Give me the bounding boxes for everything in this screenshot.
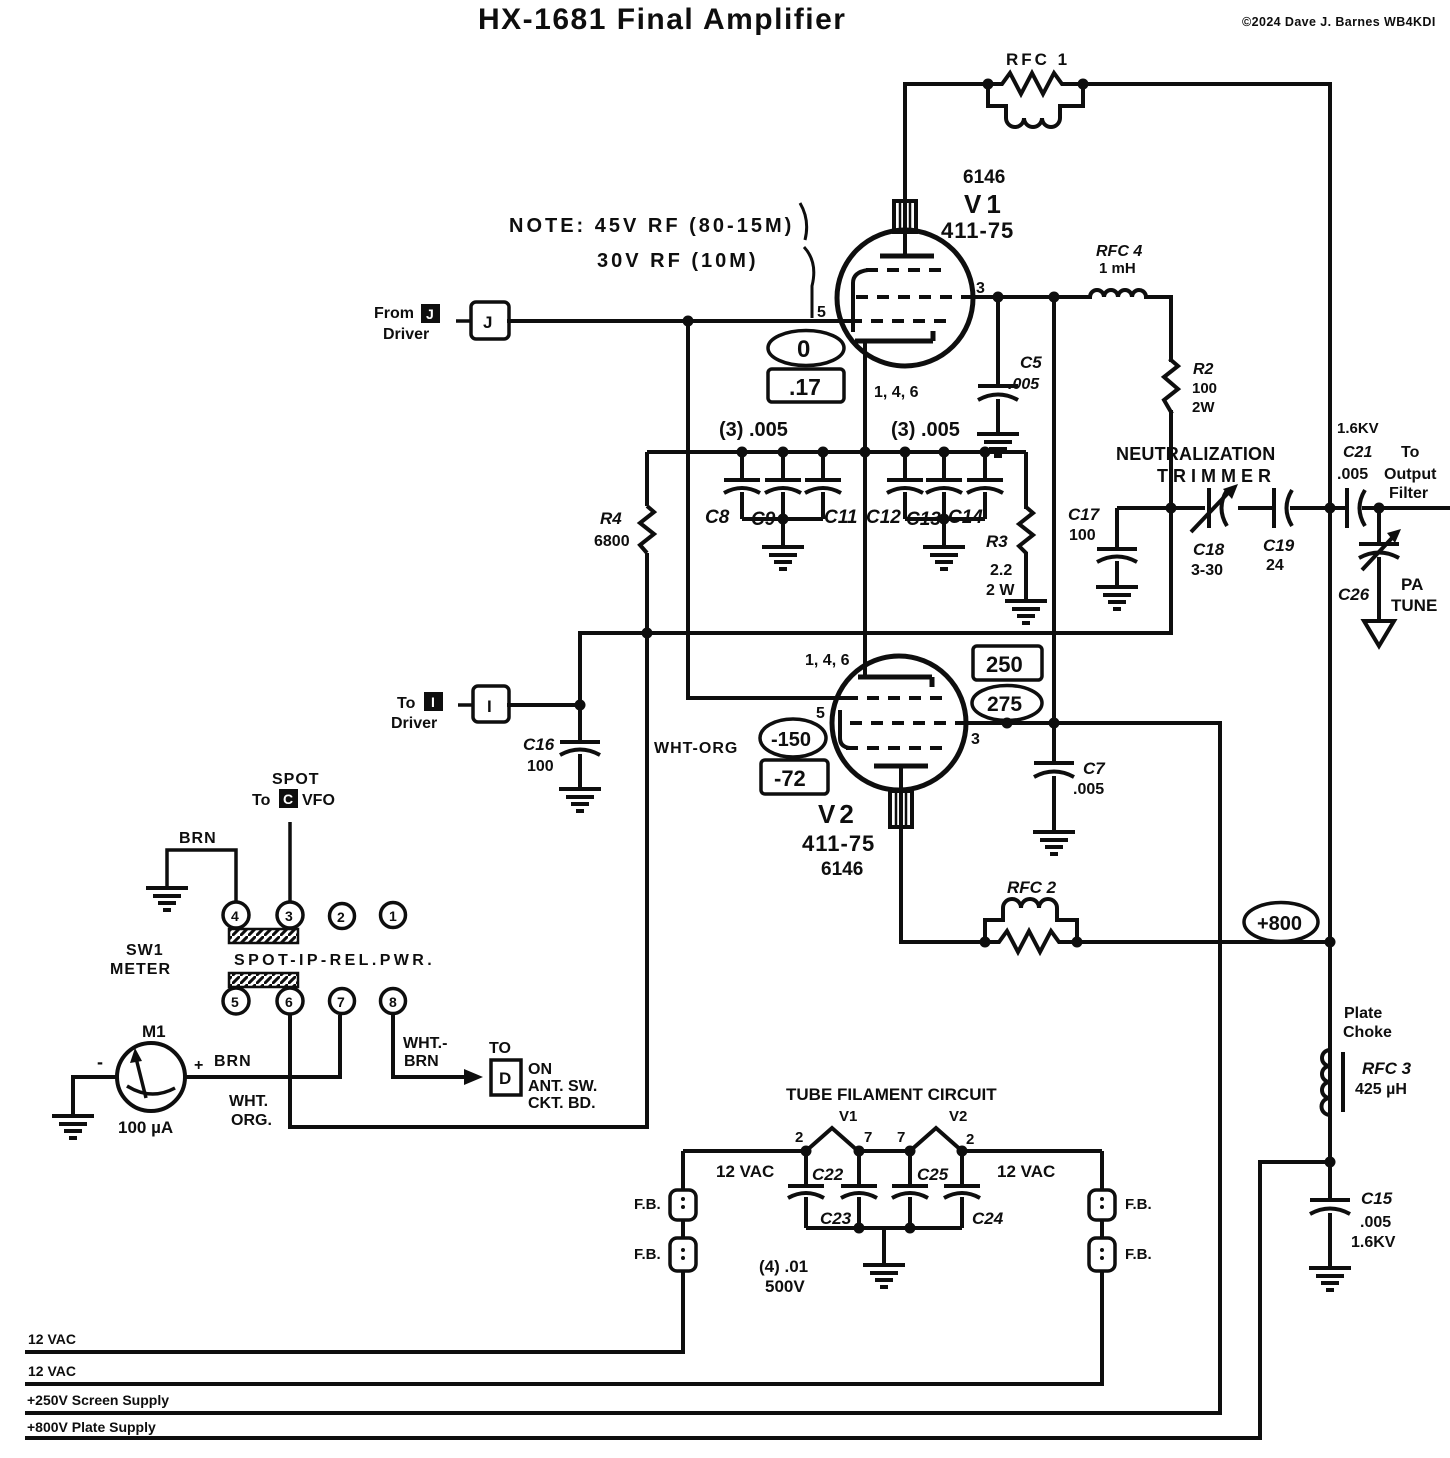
svg-text:F.B.: F.B. — [634, 1246, 661, 1263]
ferrite bead FB left 1 — [670, 1190, 696, 1220]
wire BRN to contact 4 — [167, 850, 236, 902]
svg-text:R4: R4 — [600, 509, 622, 528]
svg-text:C9: C9 — [751, 509, 776, 530]
svg-text:To: To — [397, 695, 416, 712]
svg-text:V2: V2 — [818, 799, 858, 829]
wire contact 8 WHT-BRN arrow — [393, 1015, 466, 1077]
svg-text:.005: .005 — [1337, 466, 1368, 483]
svg-text:SW1: SW1 — [126, 942, 164, 959]
svg-text:Output: Output — [1384, 466, 1437, 483]
node choke bottom junction — [1325, 1157, 1336, 1168]
svg-text:100: 100 — [1069, 527, 1096, 544]
svg-text:.005: .005 — [1360, 1214, 1391, 1231]
wire filament feed right — [962, 1149, 1102, 1153]
svg-text:(4) .01: (4) .01 — [759, 1257, 808, 1276]
svg-text:C17: C17 — [1068, 505, 1101, 524]
svg-text:TO: TO — [489, 1040, 511, 1057]
svg-text:2.2: 2.2 — [990, 562, 1012, 579]
capacitor C19 — [1274, 488, 1292, 528]
svg-text:RFC 2: RFC 2 — [1007, 878, 1057, 897]
switch SW1 wiper upper — [229, 929, 298, 943]
svg-text:C5: C5 — [1020, 353, 1042, 372]
wire V2 plate lead — [901, 827, 985, 942]
svg-text:1.6KV: 1.6KV — [1351, 1234, 1396, 1251]
wire RFC2 to +800 rail — [1077, 940, 1330, 944]
wire grid drive V1 — [509, 319, 850, 323]
svg-text:+: + — [194, 1057, 203, 1074]
ground C17 — [1096, 587, 1138, 609]
wire left cap group bar — [742, 519, 823, 545]
svg-text:V1: V1 — [964, 189, 1006, 219]
svg-text:1: 1 — [389, 908, 397, 924]
svg-text:-72: -72 — [774, 766, 806, 791]
svg-text:2: 2 — [795, 1129, 803, 1146]
svg-text:BRN: BRN — [179, 830, 217, 847]
svg-text:NEUTRALIZATION: NEUTRALIZATION — [1116, 444, 1275, 464]
svg-text:PA: PA — [1401, 575, 1423, 594]
ferrite bead FB left 2 — [670, 1238, 696, 1271]
svg-text:411-75: 411-75 — [802, 831, 875, 856]
svg-text:3: 3 — [285, 908, 293, 924]
svg-text:4: 4 — [231, 908, 239, 924]
svg-text:6146: 6146 — [963, 167, 1005, 188]
svg-text:F.B.: F.B. — [1125, 1196, 1152, 1213]
svg-text:5: 5 — [817, 304, 826, 321]
node HV rail junction — [1325, 503, 1336, 514]
trimmer capacitor C18 — [1191, 488, 1228, 532]
ground BRN — [146, 888, 188, 910]
svg-text:Driver: Driver — [383, 326, 429, 343]
filament nodes — [801, 1146, 968, 1234]
svg-text:Choke: Choke — [1343, 1024, 1392, 1041]
choke RFC1 parasitic suppressor — [983, 73, 1089, 127]
svg-text:C21: C21 — [1343, 444, 1372, 461]
svg-text:100 µA: 100 µA — [118, 1118, 173, 1137]
capacitor C9 — [765, 452, 801, 519]
svg-text:(3) .005: (3) .005 — [891, 419, 960, 441]
svg-text:2: 2 — [966, 1131, 974, 1148]
svg-text:C15: C15 — [1361, 1189, 1393, 1208]
switch SW1 contact 7 — [330, 989, 355, 1014]
inductor RFC4 — [1090, 290, 1146, 297]
capacitor C13 — [926, 452, 962, 519]
svg-text:ON: ON — [528, 1061, 552, 1078]
capacitor C8 — [724, 452, 760, 519]
wire R4 branch top — [645, 452, 649, 506]
wire filament cap bar — [806, 1228, 962, 1263]
svg-text:275: 275 — [987, 693, 1022, 716]
svg-text:12 VAC: 12 VAC — [28, 1331, 76, 1347]
svg-text:WHT-ORG: WHT-ORG — [654, 740, 738, 757]
wire SPOT to contact 3 — [288, 822, 292, 902]
svg-text:+250V Screen Supply: +250V Screen Supply — [27, 1392, 169, 1408]
svg-text:WHT.: WHT. — [229, 1093, 268, 1110]
svg-text:C26: C26 — [1338, 585, 1370, 604]
svg-text:24: 24 — [1266, 557, 1284, 574]
svg-text:I: I — [431, 694, 435, 710]
svg-text:RFC 1: RFC 1 — [1006, 50, 1070, 69]
svg-text:12 VAC: 12 VAC — [28, 1363, 76, 1379]
svg-text:From: From — [374, 305, 414, 322]
svg-text:12 VAC: 12 VAC — [716, 1162, 774, 1181]
node V2 pin3 junction — [1049, 718, 1060, 729]
svg-text:.17: .17 — [789, 374, 821, 400]
switch SW1 wiper lower — [229, 973, 298, 987]
wire left filament drop — [25, 1151, 683, 1352]
svg-text:TUNE: TUNE — [1391, 596, 1437, 615]
wire into V2 grid — [688, 696, 846, 700]
svg-text:VFO: VFO — [302, 792, 335, 809]
connector I to driver — [458, 686, 509, 722]
svg-text:C16: C16 — [523, 735, 555, 754]
svg-text:NOTE: 45V RF (80-15M): NOTE: 45V RF (80-15M) — [509, 215, 794, 237]
svg-text:C11: C11 — [824, 507, 857, 528]
capacitor C17 — [1097, 508, 1137, 585]
svg-text:.005: .005 — [1073, 781, 1104, 798]
svg-text:2: 2 — [337, 909, 345, 925]
capacitor C21 — [1347, 488, 1365, 528]
svg-text:100: 100 — [1192, 380, 1217, 397]
wire grid drive drop to V2 — [686, 321, 690, 698]
wire R3 branch — [1024, 452, 1028, 509]
svg-text:+800: +800 — [1257, 913, 1302, 935]
wire filament center — [858, 1149, 910, 1153]
svg-text:RFC 3: RFC 3 — [1362, 1059, 1412, 1078]
svg-text:SPOT: SPOT — [272, 771, 320, 788]
svg-text:METER: METER — [110, 961, 171, 978]
variable capacitor C26 PA TUNE — [1359, 508, 1399, 646]
svg-text:ANT. SW.: ANT. SW. — [528, 1078, 597, 1095]
svg-text:411-75: 411-75 — [941, 218, 1014, 243]
svg-text:V2: V2 — [949, 1108, 967, 1125]
capacitor C25 — [892, 1151, 928, 1228]
capacitor C11 — [805, 452, 841, 519]
svg-text:SPOT-IP-REL.PWR.: SPOT-IP-REL.PWR. — [234, 952, 435, 969]
svg-text:30V RF (10M): 30V RF (10M) — [597, 250, 759, 272]
resistor R4 — [640, 506, 654, 553]
svg-text:500V: 500V — [765, 1277, 805, 1296]
ground C5 — [977, 434, 1019, 456]
wire top plate feed to RFC1 — [905, 82, 988, 86]
svg-text:7: 7 — [864, 1129, 872, 1146]
svg-text:C14: C14 — [948, 507, 983, 528]
svg-text:Driver: Driver — [391, 715, 437, 732]
wire RFC1 to right rail — [1083, 82, 1330, 86]
svg-text:12 VAC: 12 VAC — [997, 1162, 1055, 1181]
svg-text:7: 7 — [897, 1129, 905, 1146]
capacitor C7 — [1034, 763, 1074, 830]
svg-text:3: 3 — [971, 731, 980, 748]
svg-text:C7: C7 — [1083, 759, 1106, 778]
capacitor C22 — [788, 1151, 824, 1228]
node screen drop tap — [1049, 292, 1060, 303]
svg-text:To: To — [252, 792, 271, 809]
svg-text:C13: C13 — [906, 509, 941, 530]
ground right cap group — [923, 547, 965, 569]
svg-text:J: J — [426, 306, 434, 322]
tube V1 6146 — [837, 201, 973, 366]
node 275 measure point — [1002, 718, 1013, 729]
wire +800V supply drop — [25, 1162, 1330, 1438]
svg-text:F.B.: F.B. — [1125, 1246, 1152, 1263]
svg-text:C23: C23 — [820, 1209, 852, 1228]
svg-text:-150: -150 — [771, 729, 811, 751]
switch SW1 contact 8 — [381, 989, 406, 1014]
capacitor C14 — [967, 452, 1003, 519]
switch SW1 contact 5 — [223, 988, 249, 1014]
svg-text:C25: C25 — [917, 1165, 949, 1184]
svg-text:WHT.-: WHT.- — [403, 1035, 447, 1052]
wire R4 to bias wire down to WHT.ORG run — [290, 553, 647, 1127]
capacitor C15 — [1310, 1200, 1350, 1266]
svg-text:0: 0 — [797, 336, 810, 363]
ground C7 — [1033, 832, 1075, 854]
callout 275 — [972, 686, 1042, 721]
svg-text:I: I — [487, 697, 492, 716]
svg-text:5: 5 — [231, 994, 239, 1010]
svg-text:8: 8 — [389, 994, 397, 1010]
wire RFC4 to R2 — [1146, 297, 1171, 360]
svg-text:C12: C12 — [866, 507, 901, 528]
capacitor C16 — [560, 705, 600, 787]
svg-text:To: To — [1401, 444, 1420, 461]
inductor RFC3 plate choke — [1322, 1050, 1343, 1115]
ground meter — [52, 1116, 94, 1138]
svg-text:C22: C22 — [812, 1165, 844, 1184]
svg-text:HX-1681 Final Amplifier: HX-1681 Final Amplifier — [478, 3, 846, 36]
svg-text:V1: V1 — [839, 1108, 857, 1125]
capacitor C5 — [978, 297, 1018, 432]
svg-text:C8: C8 — [705, 507, 730, 528]
svg-text:2 W: 2 W — [986, 582, 1015, 599]
svg-text:C: C — [283, 791, 293, 807]
svg-text:6800: 6800 — [594, 533, 630, 550]
wire V1 screen/pin3 to RFC4 — [509, 290, 1178, 705]
connector J from driver — [456, 302, 509, 339]
svg-text:©2024 Dave J. Barnes WB4KDI: ©2024 Dave J. Barnes WB4KDI — [1242, 15, 1436, 29]
capacitor C12 — [887, 452, 923, 519]
node C26 tap — [1374, 503, 1385, 514]
ferrite bead FB right 1 — [1089, 1190, 1115, 1220]
node To-I junction — [575, 700, 586, 711]
svg-text:TRIMMER: TRIMMER — [1157, 466, 1276, 486]
wire right cap group bar — [905, 519, 985, 545]
svg-text:6: 6 — [285, 994, 293, 1010]
ground C15 — [1309, 1268, 1351, 1290]
svg-text:C19: C19 — [1263, 536, 1295, 555]
svg-text:D: D — [499, 1069, 511, 1088]
wire cathode bus (caps bus) — [647, 450, 1026, 454]
capacitor C24 — [944, 1151, 980, 1228]
svg-text:+800V Plate Supply: +800V Plate Supply — [27, 1419, 156, 1435]
ground left cap group — [762, 547, 804, 569]
ferrite bead FB right 2 — [1089, 1238, 1115, 1271]
wire screen dropper V1 to V2 — [1052, 297, 1056, 761]
callout -150 — [760, 719, 826, 757]
svg-text:J: J — [483, 313, 492, 332]
node C5 tap — [993, 292, 1004, 303]
svg-text:C18: C18 — [1193, 540, 1225, 559]
svg-text:250: 250 — [986, 652, 1023, 677]
wire meter minus to ground — [73, 1077, 117, 1114]
svg-text:6146: 6146 — [821, 859, 863, 880]
node bus dots — [737, 447, 991, 525]
wire neutralization line — [1117, 506, 1450, 510]
svg-text:BRN: BRN — [404, 1053, 439, 1070]
node bias bus junction — [642, 628, 653, 639]
svg-text:1, 4, 6: 1, 4, 6 — [805, 652, 850, 669]
choke RFC2 parasitic suppressor — [980, 899, 1083, 952]
note pointer — [800, 203, 814, 318]
svg-text:Filter: Filter — [1389, 485, 1428, 502]
svg-text:3: 3 — [976, 280, 985, 297]
svg-text:-: - — [97, 1052, 103, 1072]
svg-text:Plate: Plate — [1344, 1005, 1382, 1022]
ground C16 — [559, 789, 601, 811]
wire R2 down to bias bus — [1169, 412, 1173, 633]
switch SW1 contact 3 — [277, 902, 303, 928]
svg-text:1, 4, 6: 1, 4, 6 — [874, 384, 919, 401]
callout +800 — [1244, 903, 1318, 942]
switch SW1 contact 2 — [330, 904, 355, 929]
callout 250 — [973, 646, 1042, 680]
svg-text:3-30: 3-30 — [1191, 562, 1223, 579]
svg-text:RFC 4: RFC 4 — [1096, 243, 1142, 260]
svg-text:2W: 2W — [1192, 399, 1215, 416]
switch SW1 contact 4 — [223, 902, 249, 928]
resistor R2 — [1164, 360, 1178, 412]
ground R3 — [1005, 601, 1047, 623]
svg-text:TUBE FILAMENT CIRCUIT: TUBE FILAMENT CIRCUIT — [786, 1085, 997, 1104]
svg-text:ORG.: ORG. — [231, 1112, 272, 1129]
svg-text:C24: C24 — [972, 1209, 1004, 1228]
callout -72 — [761, 760, 828, 794]
wire right filament drop — [25, 1151, 1102, 1384]
switch SW1 contact 1 — [381, 903, 406, 928]
svg-text:F.B.: F.B. — [634, 1196, 661, 1213]
svg-text:M1: M1 — [142, 1022, 166, 1041]
tube V2 6146 — [832, 656, 966, 827]
node +800 junction — [1325, 937, 1336, 948]
node grid junction — [683, 316, 694, 327]
filament V2 — [910, 1128, 962, 1151]
svg-text:CKT. BD.: CKT. BD. — [528, 1095, 596, 1112]
switch SW1 contact 6 — [277, 988, 303, 1014]
svg-text:.005: .005 — [1008, 376, 1040, 393]
resistor R3 — [1019, 507, 1033, 600]
wire V1 plate top lead — [903, 84, 907, 256]
svg-text:5: 5 — [816, 705, 825, 722]
svg-text:425 µH: 425 µH — [1355, 1081, 1407, 1098]
svg-text:7: 7 — [337, 994, 345, 1010]
wire filament feed left — [683, 1149, 806, 1153]
svg-text:1.6KV: 1.6KV — [1337, 420, 1379, 437]
svg-text:100: 100 — [527, 758, 554, 775]
svg-text:R2: R2 — [1193, 361, 1214, 378]
wire meter plus BRN to contact 7 — [185, 1015, 340, 1077]
svg-text:BRN: BRN — [214, 1053, 252, 1070]
wire bias bus — [509, 633, 1171, 705]
filament V1 — [806, 1128, 858, 1151]
wire I connector to junction — [509, 703, 580, 707]
callout 0 volts — [768, 331, 844, 403]
capacitor C23 — [841, 1151, 877, 1228]
node neutralization/R2 junction — [1166, 503, 1177, 514]
svg-text:R3: R3 — [986, 532, 1008, 551]
svg-text:1 mH: 1 mH — [1099, 260, 1136, 277]
wire V2 pin3 to screen supply drop — [25, 723, 1220, 1413]
wire V1 cathode to V2 cathode — [863, 341, 867, 677]
ground filament caps — [863, 1265, 905, 1287]
svg-text:(3) .005: (3) .005 — [719, 419, 788, 441]
wire right HV rail — [1328, 84, 1332, 1198]
